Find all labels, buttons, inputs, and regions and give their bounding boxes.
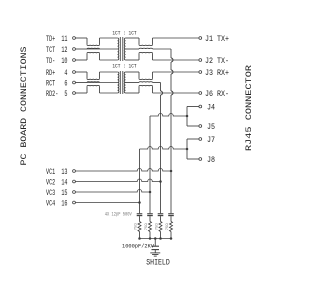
capacitor C5 1000pF/2KV — [152, 245, 160, 247]
svg-text:TD+ 11: TD+ 11 — [46, 35, 68, 44]
svg-text:VC2 14: VC2 14 — [46, 179, 68, 188]
wire cap to shield ground — [154, 250, 156, 253]
wire J5 stub — [187, 125, 199, 127]
ground SHIELD (earth symbol) — [150, 252, 160, 254]
wire TD- — [76, 59, 88, 61]
choke winding T2 top (secondary) — [138, 72, 140, 79]
choke winding T2 top (primary) — [86, 72, 88, 79]
svg-text:RCT 6: RCT 6 — [46, 80, 68, 89]
svg-text:1000pF/2KV: 1000pF/2KV — [122, 243, 154, 249]
wire J4-J5 bracket — [186, 107, 188, 127]
svg-text:75Ω: 75Ω — [134, 222, 138, 230]
choke winding T2 center (primary) — [87, 81, 99, 84]
wire TX centre tap to bus A — [153, 48, 172, 50]
wire J3 RX+ — [153, 71, 199, 73]
pin TD- terminal — [73, 59, 76, 62]
wire VC1 — [76, 169, 172, 172]
transformer T1 primary winding — [118, 38, 119, 60]
wire bus A (TX centre tap) — [170, 49, 172, 58]
choke winding T1 top (secondary) — [138, 38, 140, 45]
junction rail centre — [154, 237, 157, 240]
wire RCT — [76, 82, 88, 84]
choke winding T1 bottom (primary) — [86, 53, 88, 60]
pin VC2 terminal — [73, 180, 76, 183]
junction VC4-bus — [138, 201, 141, 204]
pin J5 terminal — [199, 125, 202, 128]
svg-text:75Ω: 75Ω — [145, 222, 149, 230]
wire VC2 — [76, 179, 161, 182]
svg-text:TCT 12: TCT 12 — [46, 46, 68, 55]
junction rail — [159, 237, 162, 240]
svg-text:J7: J7 — [207, 136, 215, 145]
capacitor C4 12pF — [168, 213, 174, 215]
wire cap C4 to resistor — [170, 216, 172, 221]
capacitor C2 12pF — [147, 213, 153, 215]
junction J7-J8 mid — [186, 148, 189, 151]
wire VC4 — [76, 202, 140, 204]
svg-text:75Ω: 75Ω — [166, 222, 170, 230]
wire J8 stub — [187, 158, 199, 160]
wire RD2- — [76, 92, 88, 94]
svg-text:1CT : 1CT: 1CT : 1CT — [112, 64, 136, 70]
wire T1 primary bottom — [100, 59, 118, 61]
wire J4/J5 tap to bus C — [150, 113, 187, 116]
choke winding T1 center (primary) — [87, 47, 99, 50]
pin J8 terminal — [199, 158, 202, 161]
choke winding T2 bottom (primary) — [86, 86, 88, 93]
svg-text:RD2- 5: RD2- 5 — [46, 90, 68, 99]
resistor R3 75&#937; — [159, 222, 162, 232]
wire termination rail — [140, 238, 172, 240]
transformer T1 secondary winding — [124, 38, 125, 60]
choke winding T1 top (primary) — [86, 38, 88, 45]
wire T1 secondary top — [126, 37, 140, 39]
choke winding T1 bottom (secondary) — [138, 53, 140, 60]
pin VC3 terminal — [73, 191, 76, 194]
resistor R1 75&#937; — [138, 222, 141, 232]
wire T2 primary center — [87, 82, 118, 84]
wire J2 TX- — [153, 59, 199, 61]
choke winding T1 center (secondary) — [139, 47, 153, 50]
pin RCT terminal — [73, 81, 76, 84]
svg-text:VC4 16: VC4 16 — [46, 200, 68, 209]
wire TCT — [76, 48, 88, 50]
wire T2 primary top — [100, 71, 118, 73]
wire RX centre tap to bus B — [153, 82, 161, 84]
junction J4-J5 mid — [186, 115, 189, 118]
svg-text:VC3 15: VC3 15 — [46, 189, 68, 198]
pin VC1 terminal — [73, 170, 76, 173]
wire J7 stub — [187, 138, 199, 140]
svg-text:J1 TX+: J1 TX+ — [205, 35, 229, 44]
choke winding T2 center (secondary) — [139, 81, 153, 84]
svg-text:J8: J8 — [207, 156, 215, 165]
pin J1 terminal — [199, 37, 202, 40]
wire resistor R1 to rail — [139, 232, 141, 239]
svg-text:J3 RX+: J3 RX+ — [205, 69, 229, 78]
resistor R2 75&#937; — [149, 222, 152, 232]
wire VC3 — [76, 190, 151, 193]
wire bus B (RX centre tap) — [160, 83, 162, 92]
pin TCT terminal — [73, 48, 76, 51]
pin RD+ terminal — [73, 71, 76, 74]
svg-text:J2 TX-: J2 TX- — [205, 57, 229, 66]
junction VC3-bus — [149, 191, 152, 194]
wire T1 primary top — [100, 37, 118, 39]
wire resistor R4 to rail — [170, 232, 172, 239]
pin TD+ terminal — [73, 37, 76, 40]
wire cap C3 to resistor — [160, 216, 162, 221]
wire T2 primary bottom — [100, 92, 118, 94]
wire J6 RX- — [153, 92, 199, 94]
wire J7-J8 bracket — [186, 139, 188, 159]
wire T2 secondary top — [126, 71, 140, 73]
transformer T2 core — [119, 71, 121, 94]
junction rail — [170, 237, 173, 240]
svg-text:PC BOARD CONNECTIONS: PC BOARD CONNECTIONS — [20, 46, 29, 165]
capacitor C1 12pF — [137, 213, 143, 215]
svg-text:75Ω: 75Ω — [155, 222, 159, 230]
svg-text:4X 12pF 500V: 4X 12pF 500V — [105, 212, 132, 218]
transformer T2 primary winding — [118, 72, 119, 93]
wire T1 secondary center — [126, 48, 140, 50]
svg-text:VC1 13: VC1 13 — [46, 168, 68, 177]
svg-text:1CT : 1CT: 1CT : 1CT — [112, 30, 136, 36]
wire J7/J8 tap to bus D — [140, 147, 188, 150]
pin J2 terminal — [199, 59, 202, 62]
wire T1 secondary bottom — [126, 59, 140, 61]
svg-text:RJ45 CONNECTOR: RJ45 CONNECTOR — [244, 65, 254, 151]
wire T2 secondary bottom — [126, 92, 140, 94]
resistor R4 75&#937; — [170, 222, 173, 232]
wire J1 TX+ — [153, 37, 199, 39]
capacitor C3 12pF — [158, 213, 164, 215]
junction rail — [149, 237, 152, 240]
svg-text:J4: J4 — [207, 104, 215, 113]
transformer T1 core — [119, 37, 121, 61]
pin J4 terminal — [199, 105, 202, 108]
junction VC1-bus — [170, 170, 173, 173]
svg-text:RD+ 4: RD+ 4 — [46, 69, 68, 78]
pin VC4 terminal — [73, 201, 76, 204]
transformer T2 secondary winding — [124, 72, 125, 93]
choke winding T2 bottom (secondary) — [138, 86, 140, 93]
wire RD+ — [76, 71, 88, 73]
svg-text:SHIELD: SHIELD — [146, 259, 170, 268]
svg-text:J6 RX-: J6 RX- — [205, 90, 229, 99]
wire J4 stub — [187, 106, 199, 108]
svg-text:TD- 10: TD- 10 — [46, 57, 68, 66]
wire bus C (J4/J5 tap) — [149, 116, 151, 213]
wire cap C1 to resistor — [139, 216, 141, 221]
junction rail — [138, 237, 141, 240]
wire resistor R3 to rail — [160, 232, 162, 239]
pin RD2- terminal — [73, 92, 76, 95]
wire T1 primary center — [87, 48, 118, 50]
junction VC2-bus — [159, 180, 162, 183]
wire TD+ — [76, 37, 88, 39]
pin J6 terminal — [199, 92, 202, 95]
wire cap C2 to resistor — [149, 216, 151, 221]
wire bus D (J7/J8 tap) — [139, 149, 141, 213]
svg-text:J5: J5 — [207, 123, 215, 132]
pin J3 terminal — [199, 71, 202, 74]
wire resistor R2 to rail — [149, 232, 151, 239]
wire T2 secondary center — [126, 82, 140, 84]
pin J7 terminal — [199, 138, 202, 141]
wire rail to shield cap — [154, 239, 156, 247]
